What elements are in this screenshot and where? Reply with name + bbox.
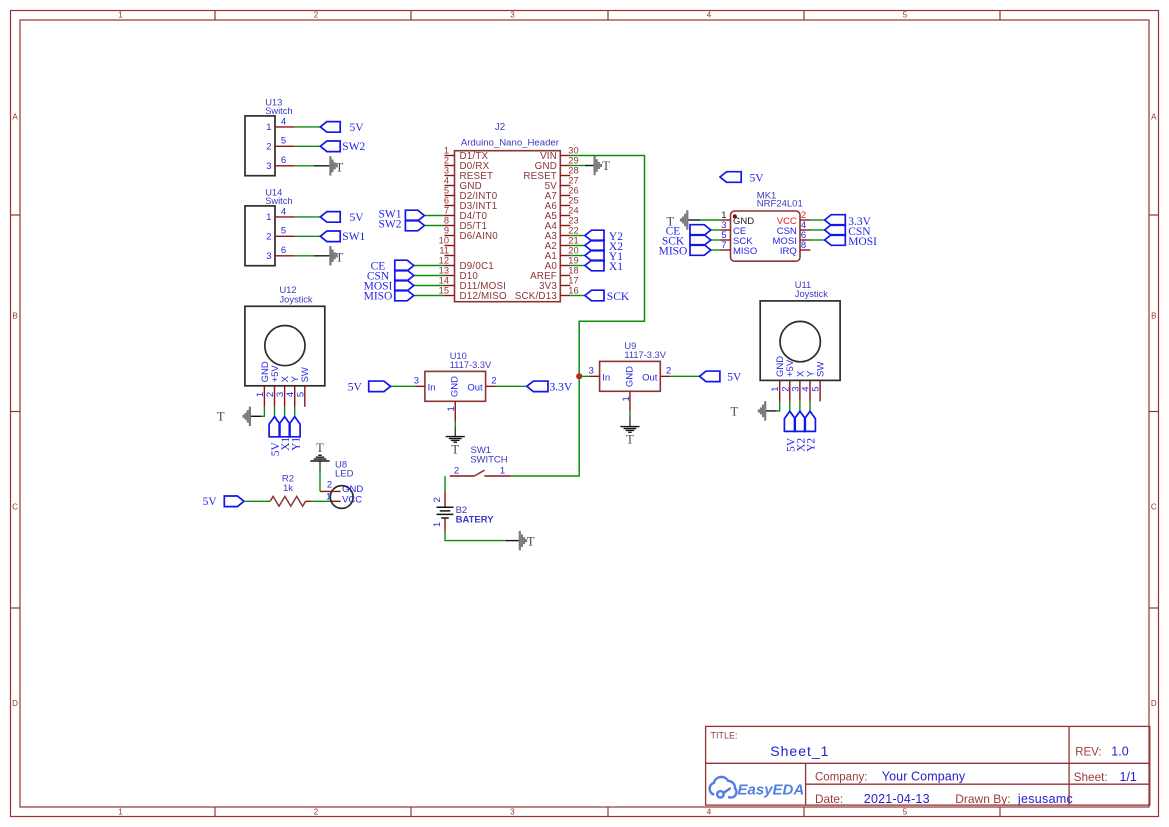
svg-text:T: T [451, 443, 459, 457]
svg-text:5V: 5V [750, 172, 765, 184]
svg-text:23: 23 [568, 216, 578, 226]
svg-text:Arduino_Nano_Header: Arduino_Nano_Header [461, 138, 560, 149]
svg-text:16: 16 [568, 286, 578, 296]
svg-text:GND: GND [450, 376, 461, 397]
svg-text:MOSI: MOSI [848, 236, 877, 248]
svg-text:14: 14 [439, 276, 449, 286]
svg-text:5V: 5V [348, 381, 363, 393]
svg-text:5: 5 [903, 10, 908, 19]
svg-text:4: 4 [707, 10, 712, 19]
svg-text:13: 13 [439, 266, 449, 276]
svg-text:SCK/D13: SCK/D13 [515, 291, 558, 302]
svg-text:NRF24L01: NRF24L01 [757, 199, 803, 210]
svg-text:2: 2 [327, 480, 332, 491]
svg-text:IRQ: IRQ [780, 246, 797, 257]
svg-text:SWITCH: SWITCH [470, 455, 508, 466]
svg-text:5V: 5V [727, 371, 742, 383]
svg-text:D12/MISO: D12/MISO [460, 291, 508, 302]
svg-text:D6/AIN0: D6/AIN0 [460, 231, 499, 242]
svg-text:T: T [217, 410, 225, 424]
svg-text:Out: Out [467, 382, 483, 393]
svg-text:SW: SW [816, 362, 827, 377]
svg-text:1/1: 1/1 [1120, 770, 1137, 784]
svg-text:5V: 5V [350, 122, 365, 134]
svg-text:1: 1 [266, 212, 271, 223]
svg-text:5: 5 [444, 186, 449, 196]
svg-text:2: 2 [314, 808, 319, 817]
svg-text:5: 5 [281, 136, 286, 147]
svg-text:21: 21 [568, 236, 578, 246]
svg-text:27: 27 [568, 176, 578, 186]
svg-text:4: 4 [707, 808, 712, 817]
svg-text:8: 8 [444, 216, 449, 226]
svg-text:29: 29 [568, 156, 578, 166]
svg-text:C: C [12, 503, 18, 512]
svg-text:8: 8 [801, 240, 806, 251]
svg-text:Switch: Switch [265, 106, 292, 116]
svg-text:T: T [602, 159, 610, 173]
svg-text:5: 5 [903, 808, 908, 817]
svg-text:2: 2 [491, 376, 496, 387]
svg-text:Your Company: Your Company [882, 770, 966, 784]
svg-text:Drawn By:: Drawn By: [955, 792, 1010, 806]
svg-text:25: 25 [568, 196, 578, 206]
svg-text:1: 1 [444, 146, 449, 156]
svg-text:1.0: 1.0 [1111, 745, 1128, 759]
svg-text:4: 4 [444, 176, 449, 186]
svg-text:15: 15 [439, 286, 449, 296]
svg-text:5V: 5V [203, 496, 218, 508]
svg-text:J2: J2 [495, 122, 505, 133]
svg-text:5V: 5V [350, 212, 365, 224]
svg-text:3.3V: 3.3V [550, 381, 573, 393]
svg-text:2: 2 [432, 497, 443, 502]
svg-text:18: 18 [568, 266, 578, 276]
svg-text:2021-04-13: 2021-04-13 [864, 792, 930, 806]
svg-text:6: 6 [444, 196, 449, 206]
svg-text:SW: SW [300, 367, 311, 382]
svg-text:3: 3 [444, 166, 449, 176]
svg-text:1k: 1k [283, 483, 293, 494]
svg-text:SCK: SCK [607, 291, 630, 303]
svg-text:A: A [1151, 112, 1157, 121]
svg-text:Sheet:: Sheet: [1074, 770, 1108, 784]
svg-text:22: 22 [568, 226, 578, 236]
svg-text:20: 20 [568, 246, 578, 256]
svg-text:1: 1 [118, 10, 123, 19]
svg-text:Switch: Switch [265, 196, 292, 206]
svg-text:24: 24 [568, 206, 578, 216]
svg-text:2: 2 [314, 10, 319, 19]
svg-text:REV:: REV: [1075, 747, 1101, 759]
svg-text:A: A [12, 112, 18, 121]
svg-text:B: B [12, 312, 17, 321]
svg-text:7: 7 [721, 240, 726, 251]
svg-text:D: D [1151, 699, 1157, 708]
svg-text:jesusamc: jesusamc [1017, 792, 1073, 806]
svg-text:3: 3 [266, 251, 271, 262]
svg-text:Y1: Y1 [290, 437, 302, 451]
svg-text:TITLE:: TITLE: [711, 731, 738, 741]
svg-text:1117-3.3V: 1117-3.3V [450, 360, 492, 370]
svg-text:7: 7 [444, 206, 449, 216]
svg-text:T: T [730, 404, 738, 418]
svg-text:BATERY: BATERY [456, 515, 495, 526]
svg-text:T: T [527, 534, 535, 548]
svg-text:3: 3 [510, 808, 515, 817]
svg-text:1: 1 [118, 808, 123, 817]
svg-text:17: 17 [568, 276, 578, 286]
svg-text:5: 5 [281, 226, 286, 237]
svg-text:10: 10 [439, 236, 449, 246]
svg-text:LED: LED [335, 468, 354, 479]
svg-text:MISO: MISO [659, 246, 688, 258]
svg-text:C: C [1151, 503, 1157, 512]
svg-text:2: 2 [266, 142, 271, 153]
svg-text:6: 6 [281, 245, 286, 256]
svg-text:Date:: Date: [815, 792, 843, 806]
svg-text:4: 4 [281, 206, 286, 217]
svg-text:Out: Out [642, 372, 658, 383]
svg-text:19: 19 [568, 256, 578, 266]
svg-text:2: 2 [666, 366, 671, 377]
svg-text:SW2: SW2 [379, 219, 402, 231]
svg-text:T: T [316, 441, 324, 455]
svg-text:2: 2 [444, 156, 449, 166]
svg-text:In: In [602, 372, 610, 383]
svg-text:3: 3 [414, 376, 419, 387]
svg-text:Sheet_1: Sheet_1 [770, 743, 829, 759]
svg-text:T: T [336, 161, 344, 175]
svg-text:11: 11 [439, 246, 449, 256]
svg-text:Joystick: Joystick [280, 294, 313, 304]
svg-text:1: 1 [621, 396, 632, 401]
svg-text:30: 30 [568, 146, 578, 156]
svg-text:Company:: Company: [815, 772, 867, 784]
svg-text:26: 26 [568, 186, 578, 196]
svg-text:3: 3 [266, 161, 271, 172]
svg-text:MISO: MISO [364, 290, 393, 302]
svg-text:Y2: Y2 [806, 438, 818, 452]
svg-text:1: 1 [500, 466, 505, 477]
svg-text:9: 9 [444, 226, 449, 236]
svg-text:2: 2 [266, 232, 271, 243]
svg-text:Joystick: Joystick [795, 289, 828, 299]
svg-text:3: 3 [510, 10, 515, 19]
svg-text:3: 3 [589, 366, 594, 377]
svg-text:In: In [428, 382, 436, 393]
svg-text:VCC: VCC [342, 495, 362, 506]
svg-text:4: 4 [281, 116, 286, 127]
svg-text:1: 1 [326, 491, 331, 502]
svg-text:2: 2 [454, 466, 459, 477]
svg-text:12: 12 [439, 256, 449, 266]
svg-text:SW2: SW2 [342, 141, 365, 153]
svg-text:GND: GND [624, 366, 635, 387]
svg-text:D: D [12, 699, 18, 708]
svg-text:1: 1 [446, 406, 457, 411]
svg-text:T: T [336, 251, 344, 265]
svg-text:SW1: SW1 [342, 231, 365, 243]
svg-text:1117-3.3V: 1117-3.3V [624, 350, 666, 360]
svg-text:EasyEDA: EasyEDA [738, 782, 805, 799]
svg-text:MISO: MISO [733, 246, 757, 257]
svg-text:28: 28 [568, 166, 578, 176]
svg-text:1: 1 [266, 122, 271, 133]
svg-text:T: T [626, 433, 634, 447]
svg-text:B: B [1151, 312, 1156, 321]
svg-text:1: 1 [432, 522, 443, 527]
svg-text:X1: X1 [609, 261, 623, 273]
svg-text:6: 6 [281, 155, 286, 166]
